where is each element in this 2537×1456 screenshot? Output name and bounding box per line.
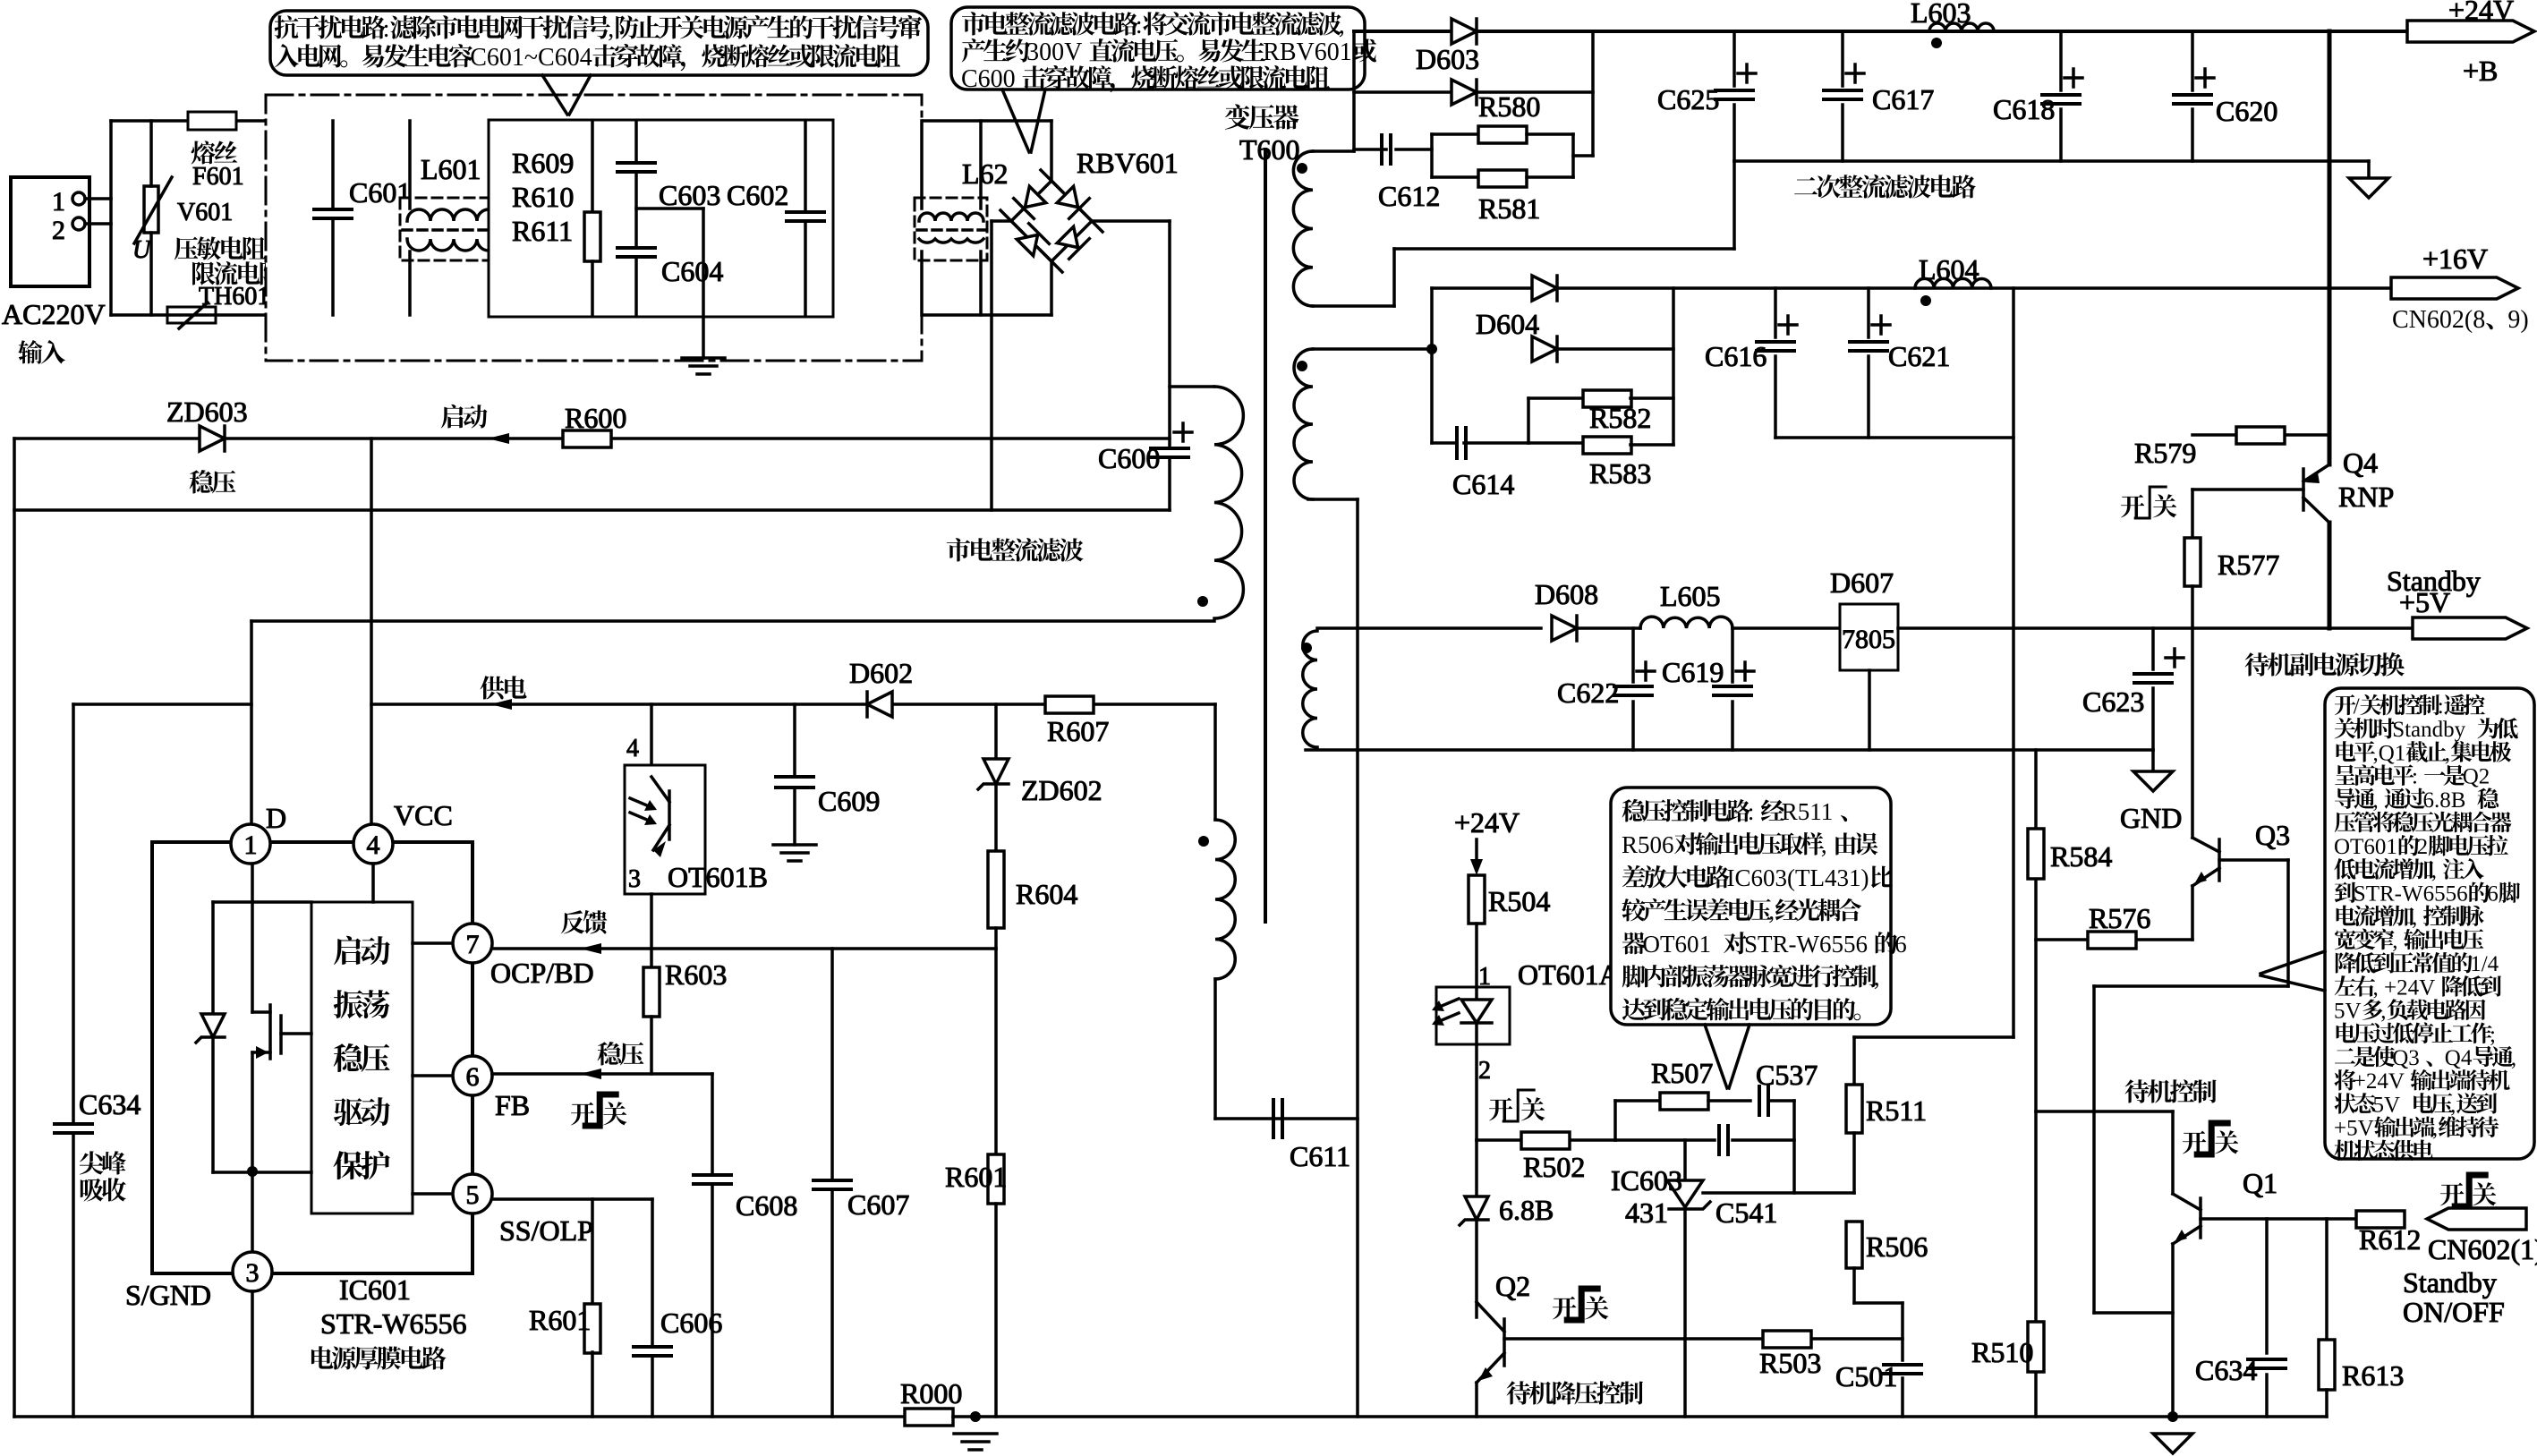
svg-text:7: 7: [466, 930, 480, 959]
svg-text:IC603(TL431): IC603(TL431): [1727, 864, 1869, 891]
diode D604a: [1532, 276, 1557, 301]
primary winding: [1214, 387, 1243, 618]
sense line: [2012, 288, 2015, 1037]
svg-text:R600: R600: [565, 402, 626, 434]
choke L601 dashed box: [400, 198, 504, 260]
wire terminal1 to node: [85, 197, 111, 200]
callout1 line1: [275, 15, 923, 43]
D603 second line: [1354, 90, 1593, 94]
symbol 开关 standby: [2183, 1131, 2206, 1154]
svg-text:OCP/BD: OCP/BD: [490, 957, 594, 989]
upper diode branch: [1430, 288, 1434, 349]
resistor R507: [1660, 1093, 1708, 1110]
D603b join: [1591, 31, 1595, 156]
pin4 to inner: [371, 864, 375, 902]
svg-text:R604: R604: [1016, 878, 1077, 910]
svg-text:R607: R607: [1047, 715, 1109, 747]
label 待机控制: [2125, 1079, 2217, 1103]
R582/R583 pair: [1527, 398, 1530, 443]
terminal 2 circle: [72, 217, 85, 230]
svg-text:C617: C617: [1872, 83, 1934, 115]
C609 ground: [773, 843, 816, 847]
pin 4 circle: [353, 824, 393, 864]
IC601 inner block: [311, 902, 413, 1213]
capacitor C611: [1272, 1100, 1275, 1137]
svg-text:D602: D602: [849, 657, 913, 689]
callout box 4: [2325, 688, 2534, 1159]
svg-text:1/4: 1/4: [2470, 952, 2499, 976]
capacitor C604: [617, 246, 655, 250]
W3 dot: [1301, 643, 1312, 653]
svg-text:2: 2: [2417, 835, 2429, 859]
L62 leads: [920, 121, 924, 209]
svg-text:GND: GND: [2120, 802, 2182, 834]
svg-text:STR-W6556: STR-W6556: [2354, 882, 2468, 907]
diode D602: [867, 692, 892, 717]
+16V connector: [2391, 277, 2518, 299]
SS wire: [492, 1197, 652, 1201]
label CN602(8,9): [2392, 306, 2529, 334]
svg-text:6: 6: [1894, 931, 1907, 958]
pin 7 circle stub: [413, 941, 453, 945]
svg-text:Standby: Standby: [2403, 1266, 2497, 1298]
svg-text:5V: 5V: [2334, 1000, 2362, 1024]
capacitor C608: [711, 1074, 714, 1174]
bridge vertex tick top: [1041, 170, 1062, 192]
gnd stub: [2151, 750, 2155, 771]
svg-text:C606: C606: [660, 1307, 722, 1339]
winding W3: [1303, 631, 1317, 747]
callout2 line2: [962, 38, 1377, 66]
svg-text:C614: C614: [1452, 468, 1514, 500]
svg-text:C541: C541: [1715, 1196, 1777, 1229]
AC input connector box: [11, 177, 89, 286]
FB wire: [492, 1072, 712, 1076]
W1 bottom zigzag: [1313, 304, 1394, 308]
bottom rail left: [14, 1415, 905, 1418]
capacitor C619: [1731, 628, 1734, 682]
earth ground main: [954, 1432, 997, 1435]
resistor R504: [1469, 875, 1485, 924]
capacitor C606: [651, 1199, 654, 1346]
svg-text:STR-W6556: STR-W6556: [1744, 931, 1868, 958]
callout4 line16: [2335, 1046, 2516, 1070]
bridge diode bottom-right: [1055, 225, 1089, 259]
svg-text:OT601A: OT601A: [1518, 958, 1620, 991]
callout 1 pointer: [542, 75, 567, 115]
label 市电整流滤波: [947, 538, 1084, 561]
winding W2: [1294, 349, 1313, 499]
svg-text:D607: D607: [1830, 566, 1894, 599]
label 压敏电阻: [175, 236, 266, 260]
C614 to bracket: [1464, 441, 1528, 445]
junction dot source: [247, 1166, 258, 1177]
svg-text:R603: R603: [665, 958, 727, 991]
pin 5 circle stub: [413, 1192, 453, 1196]
supply line: [371, 702, 1215, 706]
optocoupler OT601B lead4: [650, 704, 653, 765]
pin3 to rail: [251, 1291, 254, 1417]
wire bottom AC line: [111, 313, 1051, 317]
C537 corner: [1792, 1101, 1796, 1193]
capacitor C537: [1758, 1086, 1761, 1115]
resistor R603: [650, 949, 653, 966]
svg-text::: :: [2412, 765, 2418, 789]
svg-text:+5V: +5V: [2399, 586, 2450, 618]
callout4 line10: [2337, 905, 2484, 929]
aux winding: [1215, 820, 1235, 979]
callout 2 pointer: [1002, 89, 1029, 152]
svg-text:STR-W6556: STR-W6556: [320, 1307, 467, 1340]
svg-text:+24V: +24V: [1454, 806, 1520, 839]
svg-text:+24V: +24V: [2354, 1069, 2405, 1094]
label 待机副电源切换: [2245, 652, 2405, 677]
bridge diode top-left: [1014, 184, 1048, 218]
svg-text:1: 1: [244, 830, 258, 860]
svg-text:C619: C619: [1662, 656, 1724, 688]
zener 6.8B: [1475, 1140, 1478, 1197]
svg-text:OT601B: OT601B: [668, 861, 768, 893]
svg-text:FB: FB: [495, 1089, 530, 1121]
svg-text:2: 2: [1478, 1057, 1491, 1085]
callout3 line5: [1622, 931, 1907, 958]
symbol 开关 Q2: [1553, 1297, 1576, 1320]
callout4 line1: [2335, 694, 2485, 719]
+24V arrow in: [1475, 839, 1478, 870]
callout2 line1: [962, 12, 1345, 39]
L601 upper winding: [407, 209, 500, 221]
callout4 line15: [2337, 1022, 2496, 1046]
C614 branch: [1430, 349, 1434, 443]
svg-text:,: ,: [2373, 788, 2379, 813]
callout1 line2: [275, 44, 900, 72]
svg-text:;: ;: [2490, 1023, 2496, 1047]
svg-text:R502: R502: [1523, 1151, 1585, 1183]
svg-text:+5V: +5V: [2334, 1117, 2374, 1141]
svg-text:R613: R613: [2342, 1359, 2404, 1392]
wire to 7805: [1732, 626, 1840, 630]
symbol 开关 FB: [571, 1103, 594, 1126]
callout box 1: [270, 11, 928, 75]
svg-text:,: ,: [2511, 1046, 2516, 1070]
svg-text:6.8B: 6.8B: [2423, 788, 2466, 813]
callout3 line3: [1622, 864, 1893, 891]
svg-text:C611: C611: [1290, 1140, 1350, 1172]
pin 1 circle: [231, 824, 270, 864]
symbol 开关 CN602: [2440, 1183, 2464, 1206]
capacitor C603: [634, 121, 638, 162]
svg-text:R510: R510: [1971, 1336, 2033, 1368]
capacitor C602: [804, 121, 807, 211]
svg-text:ON/OFF: ON/OFF: [2403, 1296, 2505, 1328]
svg-text:+B: +B: [2463, 55, 2498, 87]
svg-text:R506: R506: [1866, 1230, 1928, 1263]
svg-text:R581: R581: [1478, 192, 1540, 225]
secondary gnd rail: [1306, 748, 2153, 752]
T600 core: [1264, 149, 1267, 922]
C625 lower: [1732, 105, 1736, 161]
L604 dot: [1920, 295, 1931, 306]
IC inner label 稳压: [334, 1043, 390, 1072]
varistor V601: [144, 186, 158, 233]
callout4 line6: [2335, 812, 2512, 833]
svg-text:L62: L62: [962, 158, 1009, 190]
svg-text:6: 6: [466, 1062, 480, 1092]
svg-text:C623: C623: [2082, 685, 2144, 718]
svg-text:R584: R584: [2050, 840, 2112, 873]
svg-text:U: U: [132, 236, 152, 264]
resistor R576: [2088, 932, 2136, 949]
resistor R584: [2028, 829, 2044, 879]
junction dot W2: [1426, 344, 1437, 354]
svg-text:C616: C616: [1705, 340, 1767, 372]
svg-text:C634: C634: [79, 1088, 140, 1120]
TL431 ref line: [1703, 1191, 1854, 1195]
capacitor C634b: [2265, 1219, 2269, 1353]
svg-text:5V: 5V: [2373, 1093, 2401, 1117]
svg-text:,Q1: ,Q1: [2373, 741, 2406, 765]
EMI shield dash-dot box: [266, 95, 922, 361]
supply arrow: [490, 699, 512, 710]
callout box 3: [1611, 788, 1891, 1025]
callout box 2: [951, 7, 1365, 89]
Q3 base path: [2219, 858, 2288, 862]
bridge top lead: [1050, 121, 1053, 181]
thermistor TH601: [167, 307, 216, 323]
L62 lower winding: [919, 239, 983, 243]
C612 line: [1354, 148, 1386, 151]
TL431 anode down: [1683, 1209, 1687, 1417]
zener ZD603: [200, 426, 225, 451]
capacitor C618: [2059, 31, 2063, 90]
callout4 line2: [2335, 718, 2518, 742]
diode D604b: [1532, 336, 1557, 362]
L62 mid dashed: [917, 228, 984, 232]
svg-text:D: D: [266, 802, 286, 834]
svg-text:,: ,: [1821, 831, 1827, 858]
svg-text:R612: R612: [2359, 1223, 2421, 1256]
svg-text:D604: D604: [1476, 308, 1539, 340]
W1 dot: [1297, 163, 1307, 174]
svg-text:,: ,: [2450, 1093, 2456, 1117]
earth ground symbol: [682, 356, 725, 360]
capacitor C600 electrolytic: [1151, 447, 1188, 450]
svg-text:,: ,: [1339, 12, 1345, 39]
svg-text:9): 9): [2507, 306, 2528, 334]
pin 6 circle stub: [413, 1074, 453, 1077]
svg-text:V601: V601: [177, 199, 233, 226]
zener ZD602 branch: [994, 704, 998, 761]
svg-text:C625: C625: [1657, 83, 1719, 115]
R579 line: [2192, 433, 2329, 437]
R506 to C501: [1854, 1301, 1903, 1305]
OT601A pin2 down: [1475, 1044, 1478, 1140]
W2 top lead: [1313, 347, 1432, 351]
capacitor C614: [1455, 428, 1459, 458]
secondary gnd bus: [1356, 499, 1359, 1417]
label 限流电阻: [192, 261, 283, 285]
R511 top line: [1854, 1035, 2013, 1039]
label 供电: [481, 676, 527, 699]
capacitor C612: [1380, 135, 1383, 164]
svg-text:3: 3: [628, 865, 641, 893]
regulator D607 7805 box: [1840, 604, 1898, 670]
Q1 emitter down: [2171, 1244, 2175, 1417]
L601 lower winding: [407, 239, 500, 251]
label 吸收: [81, 1178, 126, 1201]
R580/R581 pair: [1396, 148, 1432, 151]
svg-text:, +24V: , +24V: [2373, 975, 2436, 1000]
resistor R607: [1045, 696, 1094, 713]
svg-text:CN602(8: CN602(8: [2392, 306, 2485, 334]
bridge diode top-right: [1055, 184, 1089, 218]
svg-text:R503: R503: [1759, 1347, 1821, 1379]
svg-text:R507: R507: [1651, 1057, 1713, 1089]
label 稳压: [190, 470, 236, 493]
svg-text:,: ,: [1874, 964, 1880, 991]
svg-text:R000: R000: [900, 1377, 962, 1409]
bridge left lead: [992, 219, 1011, 223]
cap bottom rail: [1734, 159, 2369, 163]
+16V rail: [1432, 286, 2391, 290]
resistor R613: [2325, 1219, 2328, 1340]
svg-text:R582: R582: [1589, 402, 1651, 434]
svg-text:R609: R609: [512, 147, 574, 179]
callout 3 pointer: [1705, 1025, 1727, 1088]
svg-text:IC603: IC603: [1611, 1164, 1682, 1196]
OT601A light arrows: [1432, 999, 1459, 1026]
resistor R510: [2028, 1322, 2044, 1372]
svg-text:C602: C602: [727, 179, 788, 211]
primary return line: [14, 508, 1170, 512]
L62 upper winding: [919, 213, 983, 221]
label 变压器: [1225, 104, 1299, 129]
callout4 line3: [2337, 741, 2512, 765]
transistor Q3: [2192, 838, 2219, 886]
FB arrow: [580, 1069, 601, 1079]
svg-text:IC601: IC601: [339, 1273, 411, 1306]
resistor R612: [2356, 1211, 2405, 1228]
resistor R000: [905, 1409, 953, 1426]
svg-text:4: 4: [626, 735, 639, 762]
L601 leads: [408, 121, 412, 209]
svg-text:,: ,: [608, 15, 614, 43]
svg-text:R579: R579: [2134, 437, 2196, 469]
capacitor C625: [1732, 31, 1736, 86]
V601 vertical wire: [149, 121, 153, 186]
svg-text:Q4: Q4: [2445, 1046, 2473, 1070]
svg-text:C537: C537: [1756, 1059, 1818, 1091]
Q1 base line: [2201, 1217, 2357, 1221]
svg-text:RBV601: RBV601: [1263, 38, 1352, 66]
resistor R600: [563, 430, 611, 447]
top rail +24V: [1354, 30, 2407, 33]
W2 dot: [1297, 361, 1307, 371]
bridge vertex tick right: [1081, 210, 1102, 232]
bridge bottom lead: [1050, 261, 1053, 315]
callout4 line20: [2335, 1140, 2434, 1162]
capacitor C501: [1884, 1363, 1921, 1367]
IC inner label 振荡: [334, 990, 390, 1018]
resistor R506: [1846, 1222, 1862, 1268]
svg-text:,: ,: [2432, 1117, 2438, 1141]
L603 dot: [1931, 38, 1942, 48]
resistor R502: [1521, 1132, 1570, 1149]
transistor Q1: [2173, 1194, 2201, 1244]
pin 3 circle: [233, 1252, 272, 1291]
callout4 line5: [2335, 788, 2499, 812]
resistor R511: [1852, 1037, 1856, 1085]
capacitor C621: [1867, 288, 1870, 337]
callout3 line1: [1622, 798, 1848, 825]
callout4 line11: [2335, 929, 2484, 953]
svg-text:,: ,: [2445, 741, 2450, 765]
earth branch: [636, 207, 703, 210]
bridge diode bottom-left: [1015, 224, 1049, 258]
svg-text:,: ,: [2412, 906, 2417, 930]
svg-text:R511: R511: [1782, 798, 1834, 825]
IC603 TL431 symbol: [1667, 1180, 1710, 1209]
R576 line: [2036, 938, 2192, 941]
svg-text:6.8B: 6.8B: [1499, 1194, 1554, 1226]
svg-text:R601: R601: [529, 1304, 591, 1336]
svg-text:C621: C621: [1888, 340, 1950, 372]
wire terminal2 to node: [85, 222, 111, 226]
startup arrow: [488, 433, 509, 444]
Q1 collector: [2171, 1111, 2175, 1194]
bridge diamond: [1011, 181, 1092, 261]
inductor L603: [1929, 23, 1994, 31]
svg-text:2: 2: [52, 216, 65, 245]
svg-text:L601: L601: [421, 153, 481, 185]
GND triangle: [2133, 771, 2173, 791]
label 电源厚膜电路: [311, 1346, 447, 1369]
Q3 emitter down: [2191, 886, 2194, 940]
svg-text:R611: R611: [512, 215, 573, 247]
svg-text:5: 5: [466, 1180, 480, 1210]
Q4 base line: [2192, 488, 2303, 491]
svg-text::: :: [383, 15, 390, 43]
svg-text:Standby: Standby: [2392, 718, 2465, 742]
fuse F601: [188, 112, 236, 130]
feedback line: [492, 947, 996, 950]
svg-text:AC220V: AC220V: [2, 298, 106, 330]
winding W1: [1293, 151, 1313, 306]
callout3 line2: [1622, 831, 1877, 858]
svg-text::: :: [1748, 798, 1755, 825]
capacitor C616: [1774, 288, 1777, 337]
callout4 line18: [2335, 1093, 2498, 1117]
callout3 line7: [1622, 998, 1860, 1021]
W3 top lead: [1317, 626, 1541, 630]
C600 bottom wire: [1168, 458, 1171, 510]
varistor V601 diagonal: [134, 177, 172, 243]
svg-text:SS/OLP: SS/OLP: [499, 1214, 593, 1247]
resistor R604: [994, 786, 998, 851]
svg-text:,: ,: [2431, 858, 2437, 882]
IC601 outer box: [152, 842, 472, 1273]
callout4 line9: [2335, 881, 2520, 906]
svg-text:R610: R610: [512, 181, 574, 213]
svg-text:431: 431: [1625, 1196, 1668, 1229]
svg-text::: :: [2438, 694, 2444, 719]
bridge right lead: [1092, 219, 1170, 223]
snubber line: [73, 702, 251, 706]
svg-text:4: 4: [367, 830, 380, 860]
svg-text:/: /: [2354, 694, 2360, 719]
drain line: [251, 619, 1214, 623]
callout4 line14: [2334, 999, 2485, 1023]
